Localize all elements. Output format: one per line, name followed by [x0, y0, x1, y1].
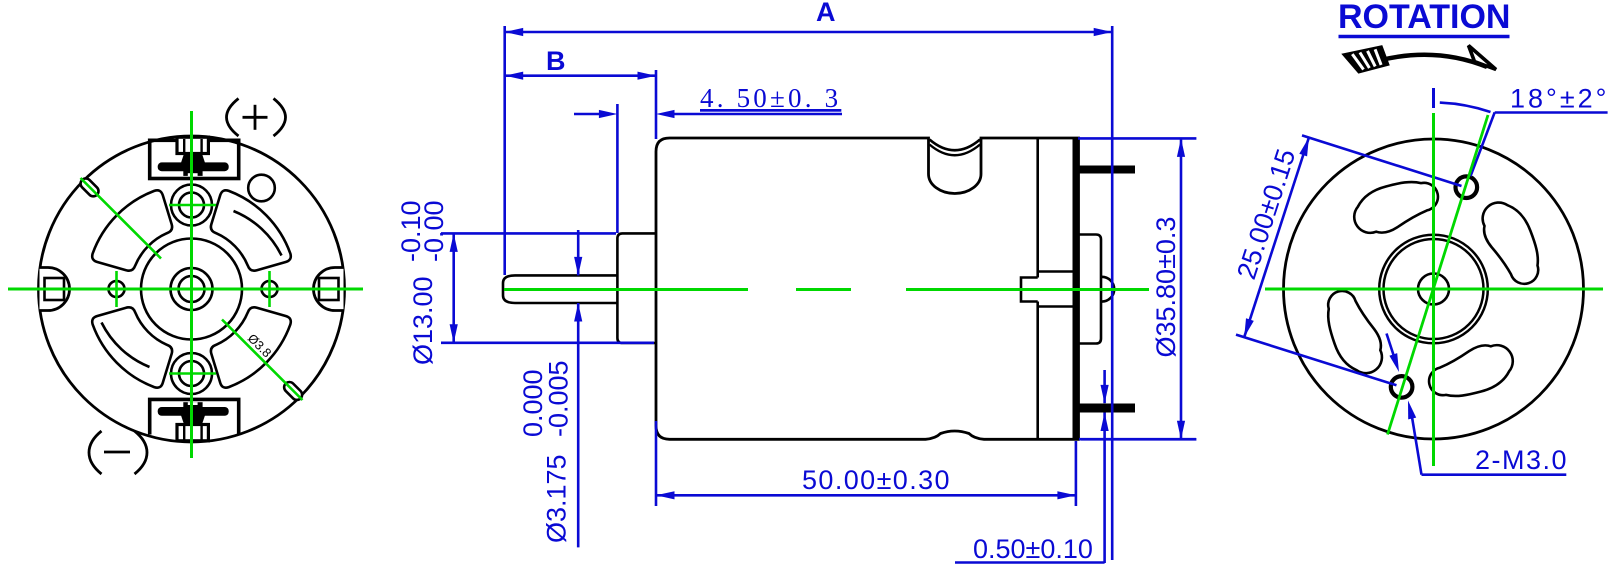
right small hole [262, 281, 278, 297]
svg-text:4. 50±0. 3: 4. 50±0. 3 [700, 83, 841, 113]
(-) label [89, 431, 102, 474]
bearing recess lines [1038, 270, 1076, 273]
dimension dia 3.175 [518, 230, 582, 547]
(+) label [227, 99, 239, 137]
outer circle [39, 136, 345, 442]
vent slot top-right [211, 190, 291, 270]
svg-text:B: B [546, 46, 566, 76]
vent slot top-left [92, 190, 172, 270]
label 2-M3.0 [1408, 401, 1568, 476]
tick bottom screw [169, 372, 216, 375]
svg-text:ROTATION: ROTATION [1338, 0, 1511, 36]
rotation hatched tail [1344, 47, 1389, 73]
svg-text:Ø13.00: Ø13.00 [408, 276, 438, 365]
right rim notch 3:00 [314, 268, 344, 311]
rear shaft tip [1101, 277, 1114, 302]
bottom terminal housing [150, 399, 239, 434]
rim slot 4:30 [282, 380, 304, 402]
middle view centerline [504, 288, 1149, 291]
svg-text:2-M3.0: 2-M3.0 [1475, 445, 1568, 475]
left view: motor rear endcap [39, 99, 345, 475]
rear bearing boss [1079, 235, 1102, 344]
bottom screw boss [171, 353, 212, 394]
center bearing hole [171, 268, 213, 310]
diagonal centerline lower-right [222, 320, 303, 401]
dimension 18 deg [1434, 84, 1610, 177]
motor can body outline [656, 138, 1079, 439]
svg-text:-0.005: -0.005 [544, 360, 574, 437]
output shaft [503, 275, 617, 303]
inner arc in bottom-left vent [102, 323, 150, 368]
shaft hole [1418, 274, 1449, 305]
small circle top-right [248, 175, 275, 202]
tick top screw [169, 204, 216, 207]
terminal tab bottom [1077, 404, 1135, 413]
top terminal housing [150, 140, 239, 178]
cap face thick line [1073, 138, 1079, 439]
boss double circle [1379, 235, 1488, 344]
middle view: motor side [503, 138, 1135, 439]
front vent slot bottom-right [1428, 338, 1515, 402]
inner arc in top-right vent [234, 211, 282, 256]
front vent slot top-right [1483, 203, 1539, 284]
left small hole [109, 281, 125, 297]
dimension dia 35.80 [1078, 138, 1196, 439]
shaft rear bracket [1021, 278, 1038, 302]
terminal tab top [1077, 166, 1135, 174]
front vent slot top-left [1353, 176, 1440, 240]
dimension 50.00 [656, 421, 1076, 506]
outer circle [1284, 139, 1584, 439]
vent slot bottom-left [92, 307, 172, 387]
tick left hole [115, 271, 118, 307]
top screw boss [171, 185, 212, 226]
dimension B [505, 46, 656, 139]
dimension 0.50 [955, 370, 1196, 564]
rotation arrowhead [1469, 46, 1497, 70]
left view centerlines [8, 111, 363, 458]
dimension 4.50 +/-0.3 [574, 83, 842, 233]
right view: motor front [1284, 46, 1584, 440]
endcap seam [1036, 138, 1039, 278]
svg-text:18°±2°: 18°±2° [1510, 84, 1609, 114]
svg-text:Ø35.80±0.3: Ø35.80±0.3 [1151, 217, 1181, 358]
rim slot 10:30 [78, 176, 100, 198]
svg-text:Ø3.175: Ø3.175 [542, 454, 572, 543]
dimension dia 13.00 [396, 200, 654, 365]
dimension A [505, 0, 1112, 560]
mounting hole bottom [1391, 376, 1413, 398]
top terminal metal [181, 155, 205, 163]
svg-text:50.00±0.30: 50.00±0.30 [802, 465, 951, 495]
mounting hole top [1456, 176, 1478, 198]
center boss circle [141, 239, 242, 340]
ROTATION arrow arc [1360, 55, 1487, 67]
front vent slot bottom-left [1326, 291, 1384, 374]
svg-text:A: A [816, 0, 836, 27]
right view centerlines [1265, 113, 1603, 466]
svg-text:-0.00: -0.00 [419, 200, 449, 262]
rolled edge arcs in top notch [930, 140, 981, 151]
svg-text:0.50±0.10: 0.50±0.10 [973, 534, 1093, 564]
diagonal centerline upper-left [81, 178, 162, 259]
dimension 25.00 [1231, 135, 1461, 385]
bottom terminal metal [183, 402, 202, 407]
front bushing boss [617, 233, 656, 343]
arrow at bottom hole [1387, 334, 1395, 359]
tick right hole [268, 271, 271, 307]
left rim notch 9:00 [40, 268, 70, 311]
vent slot bottom-right [211, 307, 291, 387]
